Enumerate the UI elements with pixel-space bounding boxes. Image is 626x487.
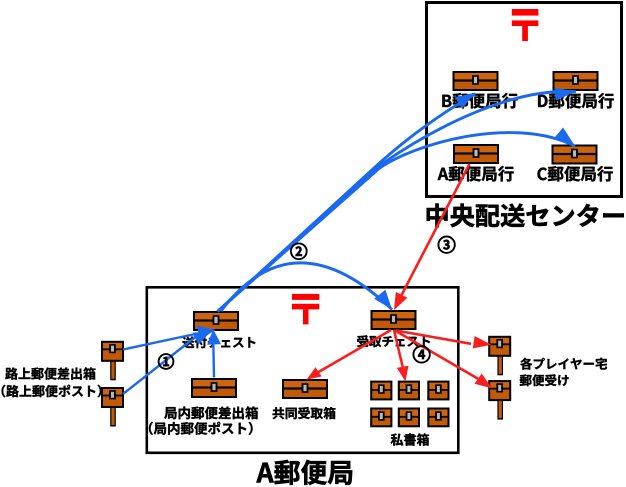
label A郵便局行: [438, 166, 514, 182]
chest 私書箱 4: [370, 408, 392, 428]
label （局内郵便ポスト）: [149, 422, 253, 435]
chest A郵便局行: [453, 144, 499, 164]
chest B郵便局行: [453, 71, 499, 91]
blue arrow 送付チェスト to B郵便局行 chest: [218, 94, 476, 312]
box frame 中央配送センター (central distribution center): [427, 3, 622, 197]
blue arrow ② 送付チェスト to 受取チェスト: [221, 263, 392, 311]
box frame A郵便局 (post office A): [147, 287, 459, 453]
label B郵便局行: [442, 93, 517, 109]
node ② (transport to center): [291, 243, 307, 259]
blue arrow 路上ポスト2 to 送付チェスト: [123, 337, 196, 395]
label 共同受取箱: [273, 407, 336, 419]
red arrow ③ A郵便局行 chest to 受取チェスト: [399, 164, 470, 300]
chest 局内郵便差出箱: [191, 378, 237, 398]
blue arrow 送付チェスト to D郵便局行 chest: [218, 91, 577, 311]
red arrow 受取チェスト to 各プレイヤー宅郵便受け(lower): [395, 331, 480, 380]
label （路上郵便ポスト）: [2, 385, 102, 398]
postal mark 〒 (central center): [512, 9, 539, 41]
chest C郵便局行: [552, 145, 598, 165]
label 私書箱: [391, 433, 429, 445]
mailbox post 路上郵便ポスト2: [101, 387, 124, 427]
node ③ (delivery from center): [438, 237, 454, 253]
blue arrow 送付チェスト to C郵便局行 chest: [218, 133, 576, 312]
chest 受取チェスト: [371, 310, 417, 330]
label 受取チェスト: [357, 335, 430, 347]
mailbox post 各プレイヤー宅郵便受け1: [488, 336, 511, 376]
red arrow 受取チェスト to 共同受取箱: [316, 330, 391, 374]
node ① (mail posting step): [159, 354, 174, 369]
chest 私書箱 2: [398, 381, 420, 401]
label 中央配送センター: [427, 204, 624, 228]
chest 私書箱 3: [427, 381, 449, 401]
blue arrow 路上ポスト1 to 送付チェスト: [123, 333, 200, 350]
label D郵便局行: [538, 93, 614, 109]
blue arrow 局内郵便差出箱 to 送付チェスト: [212, 342, 215, 378]
chest 共同受取箱: [282, 379, 328, 399]
chest 送付チェスト: [193, 311, 239, 331]
label 局内郵便差出箱: [164, 406, 258, 419]
label A郵便局: [256, 460, 352, 485]
mailbox post 各プレイヤー宅郵便受け2: [488, 380, 511, 420]
mailbox post 路上郵便ポスト1: [101, 341, 124, 381]
chest D郵便局行: [553, 71, 599, 91]
node ④ (local delivery): [413, 346, 429, 362]
red arrow 受取チェスト to 各プレイヤー宅郵便受け(upper): [396, 331, 471, 344]
chest 私書箱 6: [427, 408, 449, 428]
label 各プレイヤー宅: [520, 358, 607, 370]
label 路上郵便差出箱: [5, 367, 95, 379]
label C郵便局行: [537, 166, 612, 182]
chest 私書箱 1: [370, 381, 392, 401]
red arrow 受取チェスト to 私書箱: [394, 330, 403, 367]
postal mark 〒 (post office A): [292, 294, 319, 325]
label 郵便受け: [520, 374, 569, 386]
chest 私書箱 5: [398, 408, 420, 428]
label 送付チェスト: [182, 336, 255, 348]
